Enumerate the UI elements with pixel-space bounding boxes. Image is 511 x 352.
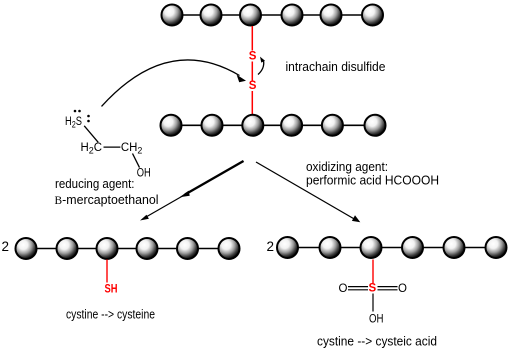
svg-text:cystine --> cysteic acid: cystine --> cysteic acid (317, 333, 437, 348)
node bottom-right bead 4 (402, 237, 423, 258)
svg-text:intrachain disulfide: intrachain disulfide (286, 59, 386, 74)
wire bond S to OH (372, 294, 374, 312)
node top chain bead 5 (321, 5, 342, 26)
wire red bond top bead to S1 (251, 26, 253, 51)
node bottom-left bead 6 (219, 238, 240, 259)
svg-text:O: O (339, 283, 348, 295)
node bottom-left bead 4 (137, 238, 158, 259)
node top chain bead 1 (162, 5, 183, 26)
wire right branch arrow (256, 162, 356, 220)
wire double bond O=S left (348, 286, 368, 288)
node middle chain bead 5 (322, 115, 343, 136)
svg-text:2: 2 (267, 239, 275, 254)
wire double bond S=O right (378, 286, 398, 288)
wire red bond S2 to middle chain (251, 91, 253, 115)
node middle chain bead 2 (202, 115, 223, 136)
node bottom-left bead 3 (97, 238, 118, 259)
svg-text:reducing agent:: reducing agent: (55, 176, 135, 191)
svg-text:performic acid HCOOOH: performic acid HCOOOH (306, 172, 439, 187)
node middle chain bead 4 (281, 115, 302, 136)
node middle chain bead 3 (242, 115, 263, 136)
node bottom-right bead 3 (361, 237, 382, 258)
wire bottom-right backbone rod (288, 247, 497, 249)
wire middle-chain backbone rod (171, 124, 375, 126)
wire bond S-CH2 (84, 126, 98, 143)
wire top-chain backbone rod (172, 14, 373, 16)
node bottom-right bead 2 (320, 237, 341, 258)
node middle chain bead 6 (365, 115, 386, 136)
svg-text:SH: SH (105, 284, 118, 296)
node top chain bead 2 (201, 5, 222, 26)
wire red bond bead to sulfonic S (372, 260, 374, 284)
node bottom-left bead 2 (57, 238, 78, 259)
svg-text:S: S (249, 51, 257, 63)
wire long curved arrow from thiol to disulfide (102, 60, 240, 106)
svg-text:OH: OH (369, 313, 384, 325)
wire red bond S1 to S2 (251, 62, 253, 81)
node bottom-left bead 5 (177, 238, 198, 259)
wire red bond bead to SH (106, 260, 108, 283)
wire bond C-OH (133, 154, 140, 168)
node top chain bead 6 (362, 5, 383, 26)
svg-text:cystine --> cysteine: cystine --> cysteine (66, 307, 155, 322)
svg-text:S: S (249, 80, 257, 92)
svg-text:OH: OH (137, 167, 151, 179)
node bottom-right bead 6 (486, 237, 507, 258)
node bottom-left bead 1 (16, 238, 37, 259)
node lone pair dots right of S of H2S (87, 115, 90, 118)
node top chain bead 4 (282, 5, 303, 26)
wire small curved arrow pointing at S-S (258, 61, 264, 75)
wire bond C-C (104, 146, 121, 148)
node bottom-right bead 5 (444, 237, 465, 258)
svg-text:S: S (369, 283, 377, 295)
wire thin left branch arrow (146, 161, 244, 217)
svg-text:B-mercaptoethanol: B-mercaptoethanol (55, 192, 159, 207)
wire bottom-left backbone rod (26, 248, 229, 250)
wire thick left branch arrow (185, 161, 244, 195)
node lone pair dots above S of H2S (74, 110, 77, 113)
node top chain bead 3 (240, 5, 261, 26)
svg-text:2: 2 (2, 239, 10, 254)
svg-text:O: O (398, 283, 407, 295)
node middle chain bead 1 (161, 115, 182, 136)
node bottom-right bead 1 (277, 237, 298, 258)
